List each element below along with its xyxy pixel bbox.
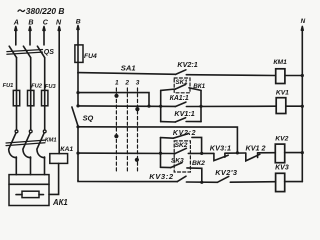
current relay KA1 coil — [50, 154, 68, 164]
node N — [56, 18, 62, 26]
SA1 closed dot row3 pos1 — [114, 134, 118, 138]
supply label 380/220V — [18, 10, 25, 12]
svg-text:2: 2 — [124, 80, 129, 87]
N bus right — [301, 27, 303, 182]
wire KV2:2 branch left vertical — [160, 138, 162, 168]
wire KV2 coil to N bus — [285, 152, 303, 154]
svg-text:B: B — [28, 18, 33, 26]
svg-text:ВК1: ВК1 — [193, 83, 205, 90]
wire fuse FU3 to KM1 contact — [44, 106, 46, 130]
junction row D bus — [76, 125, 79, 128]
SA1 position line 2 — [126, 88, 128, 171]
contact SK2 — [175, 148, 186, 153]
wire KV3 coil to N bus — [285, 181, 303, 183]
svg-text:B: B — [76, 19, 81, 26]
wire KM1 pole A to AK1 — [15, 157, 17, 175]
SA1 closed dot row4 pos3 — [135, 158, 139, 162]
fuse FU3 — [42, 90, 48, 105]
svg-text:ВК2: ВК2 — [192, 160, 205, 167]
junction row H SK3 branch — [200, 181, 203, 184]
wire phase A drop with arrow — [15, 27, 17, 45]
svg-text:KV3:1: KV3:1 — [210, 144, 231, 153]
wire pole C to fuse — [44, 58, 46, 91]
wire group bottom branch left — [161, 121, 176, 123]
wire control bus upper — [77, 73, 79, 107]
svg-text:FU4: FU4 — [84, 53, 97, 60]
wire top rail left — [78, 73, 176, 75]
sensor BK2 dashed box — [174, 141, 190, 172]
contact KV3:2 — [177, 176, 186, 181]
junction row F KV2:2 branch — [200, 152, 203, 155]
svg-text:FU2: FU2 — [31, 84, 43, 90]
wire neutral N drop with arrow — [58, 27, 60, 154]
svg-text:КА1:1: КА1:1 — [170, 95, 189, 102]
fuse FU2 — [28, 90, 34, 105]
svg-text:N: N — [56, 18, 62, 26]
wire KM1 pole B to AK1 — [30, 157, 32, 175]
wire row F left — [78, 152, 175, 154]
contact KV2:1 — [176, 70, 186, 75]
contactor coil KM1 — [276, 69, 285, 84]
contact KA1:1 — [175, 102, 186, 107]
relay coil KV1 — [276, 98, 286, 114]
fuse FU4 — [75, 45, 83, 63]
wire row H middle — [186, 181, 217, 183]
limit switch SQ — [72, 107, 78, 127]
junction row B to row C — [147, 105, 150, 108]
wire phase B drop with arrow — [29, 27, 31, 45]
wire FU4 to bus — [77, 62, 79, 73]
wire fuse FU2 to KM1 contact — [30, 106, 32, 130]
svg-text:1: 1 — [115, 80, 119, 87]
junction group right on row C — [199, 105, 202, 108]
wire KA1 to AK1 — [49, 163, 59, 194]
wire row H left — [78, 181, 177, 182]
SA1 position line 3 — [137, 88, 139, 171]
contact KV2:2 — [173, 133, 189, 138]
junction N bus KM1 — [301, 74, 304, 77]
svg-text:KV1 2: KV1 2 — [246, 144, 266, 153]
wire row C left — [78, 105, 175, 108]
wire pole A to fuse — [16, 58, 18, 91]
wire fuse FU1 to KM1 contact — [16, 106, 18, 130]
svg-text:КМ1: КМ1 — [273, 59, 287, 66]
svg-text:KV2'3: KV2'3 — [215, 168, 238, 177]
wire KM1 pole C to AK1 — [44, 157, 46, 175]
junction N bus KV2 — [301, 151, 304, 154]
wire row G left — [161, 166, 171, 168]
SA1 position line 1 — [115, 88, 117, 171]
svg-text:C: C — [43, 18, 49, 26]
svg-text:380/220 В: 380/220 В — [26, 6, 65, 16]
wire parallel group left vertical — [160, 90, 162, 121]
svg-text:SK2: SK2 — [175, 142, 188, 149]
wire group top branch left — [161, 89, 176, 90]
sensor BK1 dashed box — [174, 78, 190, 93]
SA1 position numbers 1 2 3 — [115, 80, 140, 87]
svg-text:АК1: АК1 — [52, 198, 68, 207]
wire row D — [78, 127, 237, 153]
contact KV3:1 — [214, 153, 228, 160]
junction row D to row F — [236, 151, 239, 154]
wire control phase B drop with arrow — [77, 26, 79, 45]
fuse FU1 — [13, 90, 19, 105]
svg-text:FU3: FU3 — [45, 84, 57, 90]
wire pole B to fuse — [30, 58, 32, 91]
SA1 closed dot row2 pos3 — [135, 107, 139, 111]
junction row C bus — [76, 104, 79, 107]
wire row H to KV3 coil — [230, 181, 275, 184]
svg-text:QS: QS — [44, 49, 54, 56]
junction row F bus — [76, 152, 79, 155]
wire parallel group right vertical — [200, 90, 202, 121]
svg-text:KV3:2: KV3:2 — [149, 172, 174, 181]
junction row B bus — [76, 91, 79, 94]
wire group top branch right — [189, 88, 201, 91]
wire row E right — [192, 137, 202, 153]
wire row G right — [187, 168, 202, 182]
contact SK1 — [176, 84, 186, 89]
svg-text:KV3: KV3 — [275, 165, 289, 172]
svg-text:KV1:1: KV1:1 — [174, 109, 194, 118]
svg-text:SK1: SK1 — [176, 79, 189, 86]
wire row B — [78, 93, 149, 107]
wire control bus lower — [77, 127, 79, 181]
svg-text:КМ1: КМ1 — [45, 138, 57, 144]
junction N bus KV1 — [301, 105, 304, 108]
node C — [43, 18, 49, 26]
contact KV1:2 — [246, 153, 260, 161]
svg-text:KV2: KV2 — [275, 135, 288, 142]
wire top rail right — [186, 74, 275, 77]
contact SK3 — [171, 163, 182, 168]
svg-text:КА1: КА1 — [60, 146, 73, 153]
wire row C right — [186, 105, 276, 107]
relay coil KV2 — [275, 144, 284, 163]
svg-text:FU1: FU1 — [3, 83, 14, 89]
svg-text:KV1: KV1 — [276, 89, 289, 96]
contact KV1:1 — [175, 118, 185, 122]
contactor KM1 main contacts — [6, 130, 46, 158]
svg-text:N: N — [301, 18, 306, 25]
wire KV1 coil to N bus — [286, 105, 302, 107]
furnace AK1 — [9, 175, 49, 206]
svg-text:KV2:2: KV2:2 — [173, 130, 196, 137]
node B — [28, 18, 33, 26]
wire row F to KV2 coil — [258, 152, 276, 154]
wire row E left — [161, 137, 174, 140]
switch QS — [7, 46, 45, 57]
SA1 closed dot row1 pos1 — [114, 94, 118, 98]
junction group left on row C — [159, 105, 162, 108]
wire KM1 coil to N bus — [286, 75, 303, 77]
svg-text:KV2:1: KV2:1 — [177, 60, 197, 69]
wire group bottom branch right — [186, 121, 201, 123]
svg-text:SA1: SA1 — [121, 63, 136, 72]
svg-text:SK3: SK3 — [171, 158, 184, 165]
svg-text:SQ: SQ — [83, 113, 94, 122]
wire row F middle — [188, 152, 214, 154]
node A — [13, 18, 19, 26]
relay coil KV3 — [276, 173, 285, 191]
wire row F right of KV3:1 — [225, 152, 246, 154]
node B tap — [76, 19, 81, 26]
selector switch SA1 label — [121, 63, 136, 72]
wire phase C drop with arrow — [43, 27, 45, 45]
svg-text:3: 3 — [136, 80, 140, 87]
svg-text:A: A — [13, 18, 19, 26]
contact KV2:3 — [217, 176, 228, 182]
junction row F group vertical — [159, 152, 162, 155]
